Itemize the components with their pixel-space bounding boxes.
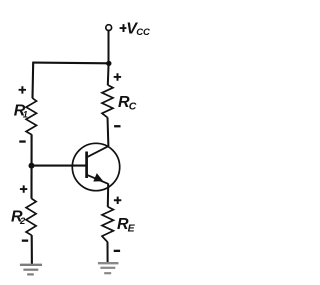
wire left ground stub — [31, 235, 33, 265]
label RE — [117, 216, 136, 234]
plus R2 — [20, 185, 27, 192]
svg-text:2: 2 — [19, 216, 26, 227]
minus R2 — [22, 240, 28, 242]
wire left rail middle — [30, 134, 32, 198]
plus RE — [114, 197, 121, 204]
svg-text:E: E — [128, 223, 136, 235]
label R1 — [14, 103, 28, 120]
wire emitter — [107, 184, 109, 207]
node base junction — [29, 163, 35, 169]
wire top horizontal — [33, 62, 109, 65]
svg-text:1: 1 — [23, 110, 28, 120]
wire right ground stub — [107, 242, 109, 264]
resistor RC — [102, 85, 113, 118]
node collector junction — [106, 61, 111, 66]
ground right — [98, 263, 119, 273]
resistor R2 — [26, 199, 36, 236]
label R2 — [11, 209, 26, 227]
wire collector rail — [107, 63, 110, 85]
svg-text:C: C — [129, 101, 137, 113]
label +VCC — [120, 21, 150, 39]
resistor RE — [102, 207, 113, 242]
power terminal +VCC — [106, 25, 112, 31]
label RC — [118, 94, 137, 112]
minus RE — [114, 250, 120, 252]
transistor Q1 — [72, 143, 119, 190]
minus R1 — [19, 140, 25, 142]
wire RC to collector — [107, 117, 110, 146]
minus RC — [114, 125, 120, 127]
resistor R1 — [26, 98, 36, 135]
wire left rail top — [31, 62, 34, 99]
ground left — [20, 265, 42, 275]
svg-text:CC: CC — [136, 27, 150, 38]
plus R1 — [19, 86, 26, 93]
wire base — [32, 165, 87, 167]
wire VCC stub — [108, 31, 110, 64]
plus RC — [114, 73, 121, 80]
